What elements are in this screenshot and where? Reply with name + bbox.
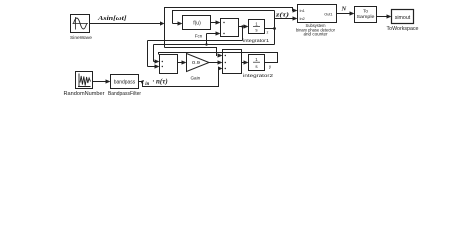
wire inner loop	[173, 11, 275, 24]
svg-text:z: z	[267, 31, 269, 35]
block Fcn f(u)	[183, 16, 211, 30]
svg-text:Fcn: Fcn	[195, 33, 203, 38]
block RandomNumber	[76, 72, 93, 89]
wire riser to L1	[242, 27, 244, 41]
svg-text:and counter: and counter	[304, 32, 329, 37]
svg-text:integrator1: integrator1	[243, 38, 270, 43]
svg-text:N: N	[341, 6, 347, 13]
block To Sample	[355, 7, 377, 23]
wire bandpass to product2 in3	[139, 69, 219, 87]
wire L2	[154, 45, 275, 62]
wire outer loop to In1	[165, 8, 294, 48]
svg-text:In1: In1	[300, 9, 305, 13]
wire gain to product2	[209, 62, 218, 64]
svg-text:Gain: Gain	[190, 76, 200, 81]
block product2	[223, 50, 242, 74]
block simout ToWorkspace	[392, 10, 414, 24]
wire integrator1 output to z node	[265, 28, 275, 30]
wire to In2	[275, 18, 294, 20]
block Subsystem	[298, 5, 337, 23]
svg-text:Out1: Out1	[324, 12, 332, 16]
block Gain 0.9	[187, 54, 210, 72]
svg-text:To: To	[363, 9, 368, 14]
svg-text:simout: simout	[395, 15, 411, 21]
wire product2 to integrator2	[242, 62, 244, 64]
svg-text:Asin[ωt]: Asin[ωt]	[97, 15, 128, 22]
wire integrator2 feedback L4	[159, 53, 278, 63]
svg-text:y: y	[269, 64, 272, 69]
block SineWave	[71, 15, 90, 33]
wire random to bandpass	[93, 81, 106, 83]
block sum	[160, 55, 178, 74]
wire z vertical	[274, 11, 276, 45]
node L2 junction	[205, 43, 207, 45]
svg-text:BandpassFilter: BandpassFilter	[108, 91, 141, 97]
wire L3 sine to product2	[165, 48, 218, 56]
svg-text:s: s	[255, 28, 258, 33]
wire f(u) input	[173, 23, 178, 25]
svg-text:1: 1	[255, 21, 258, 26]
block integrator2	[249, 55, 265, 71]
node z junction	[273, 27, 276, 30]
wire L1	[148, 41, 243, 67]
svg-text:z(τ): z(τ)	[275, 12, 289, 19]
svg-text:0.9: 0.9	[192, 60, 200, 65]
wire To Sample to simout	[377, 16, 387, 18]
svg-text:bandpass: bandpass	[114, 80, 136, 86]
wire sine output	[90, 23, 161, 25]
wire sum to gain	[178, 62, 182, 64]
block product1	[221, 19, 239, 37]
svg-text:RandomNumber: RandomNumber	[64, 91, 105, 97]
block bandpass	[111, 75, 139, 89]
svg-text:ein· n(τ): ein· n(τ)	[141, 78, 168, 88]
wire subsystem to To Sample	[337, 13, 351, 15]
wire f(u) to product1 in1	[211, 22, 216, 24]
wire product1 to integrator1	[239, 26, 244, 28]
block integrator1	[249, 20, 265, 34]
svg-text:In2: In2	[300, 17, 305, 21]
wire product1 in2	[207, 34, 216, 45]
svg-text:1: 1	[255, 57, 258, 62]
svg-text:integrator2: integrator2	[243, 73, 274, 78]
svg-text:SineWave: SineWave	[70, 35, 92, 41]
svg-text:Sample: Sample	[357, 14, 376, 19]
svg-text:f(u): f(u)	[193, 20, 201, 26]
svg-text:s: s	[255, 64, 258, 69]
svg-text:ToWorkspace: ToWorkspace	[387, 26, 419, 32]
